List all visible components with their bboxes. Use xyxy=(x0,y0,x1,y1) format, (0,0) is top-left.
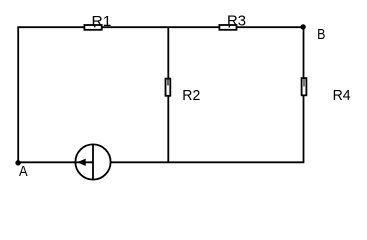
node B junction dot xyxy=(300,24,305,29)
svg-text:R3: R3 xyxy=(227,12,246,29)
svg-text:A: A xyxy=(19,163,28,180)
wire: middle junction to R3 xyxy=(168,26,220,28)
wire: middle vertical upper (top junction down to R2) xyxy=(167,27,169,78)
wire: right vertical lower (R4 down to bottom-right corner) xyxy=(303,95,305,162)
current source I1 (circle with center bar and left-pointing arrow) xyxy=(75,144,110,179)
resistor R2 xyxy=(166,79,201,105)
svg-text:B: B xyxy=(317,26,325,43)
wire: left vertical (node A up to top-left corner) xyxy=(17,27,19,162)
resistor R3 xyxy=(219,12,246,30)
svg-text:R4: R4 xyxy=(333,87,351,104)
resistor R1 xyxy=(84,13,111,30)
wire: R1 to middle junction xyxy=(102,26,168,28)
svg-text:R2: R2 xyxy=(182,87,200,104)
resistor R4 xyxy=(302,78,351,104)
wire: bottom horizontal left (node A to current source) xyxy=(18,161,76,163)
wire: top-left horizontal (corner to R1) xyxy=(17,26,84,28)
wire: bottom horizontal right (current source to bottom-right corner) xyxy=(110,161,304,163)
svg-text:R1: R1 xyxy=(92,13,112,30)
wire: middle vertical lower (R2 down to bottom junction) xyxy=(167,96,169,163)
wire: right vertical upper (node B down to R4) xyxy=(303,27,305,78)
node A junction dot xyxy=(15,160,20,165)
wire: R3 to node B xyxy=(237,26,303,28)
